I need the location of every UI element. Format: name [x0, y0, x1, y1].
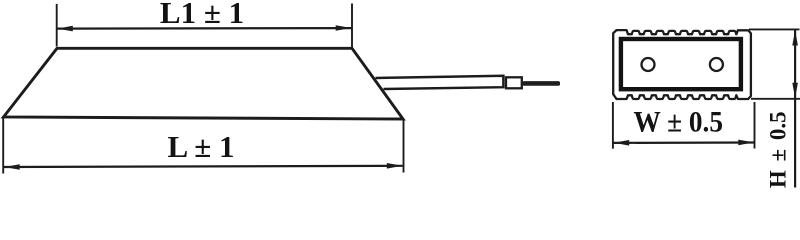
lead wire: insulated sleeve [376, 76, 504, 89]
dimension L1: left extension line [56, 4, 58, 47]
dimension H: dimension line [794, 30, 796, 188]
cross-section body: ribbed outline [613, 30, 751, 99]
dimension L1: left arrowhead [57, 26, 73, 32]
dimension W: dimension line [614, 141, 755, 144]
dimension H: top arrowhead [792, 30, 798, 46]
svg-text:H ± 0.5: H ± 0.5 [765, 111, 790, 188]
cross-section: right hole [710, 58, 723, 71]
dimension H: bottom arrowhead [792, 83, 798, 99]
dimension H: top extension line [749, 28, 800, 30]
svg-text:L1 ± 1: L1 ± 1 [160, 0, 244, 30]
lead wire: bare lead [523, 81, 561, 86]
dimension W: left extension line [612, 102, 614, 149]
svg-text:W ± 0.5: W ± 0.5 [634, 105, 724, 138]
dimension L: right extension line [403, 120, 405, 173]
dimension L: left arrowhead [4, 164, 20, 170]
svg-text:L ± 1: L ± 1 [168, 129, 235, 164]
cross-section: left hole [642, 58, 655, 71]
dimension L1: right arrowhead [336, 25, 352, 31]
dimension L: dimension line [4, 166, 403, 167]
dimension W: right arrowhead [738, 140, 754, 146]
dimension W: left arrowhead [614, 140, 630, 146]
resistor body (trapezoid side view) [4, 48, 404, 119]
dimension H: bottom extension line [751, 98, 800, 100]
dimension L: left extension line [2, 118, 4, 174]
dimension L1: dimension line [57, 27, 352, 30]
dimension W: right extension line [754, 102, 756, 149]
lead wire: ferrule [506, 77, 522, 88]
dimension L1: right extension line [351, 4, 353, 48]
cross-section: inner winding rectangle [621, 39, 741, 89]
dimension L: right arrowhead [387, 163, 403, 169]
